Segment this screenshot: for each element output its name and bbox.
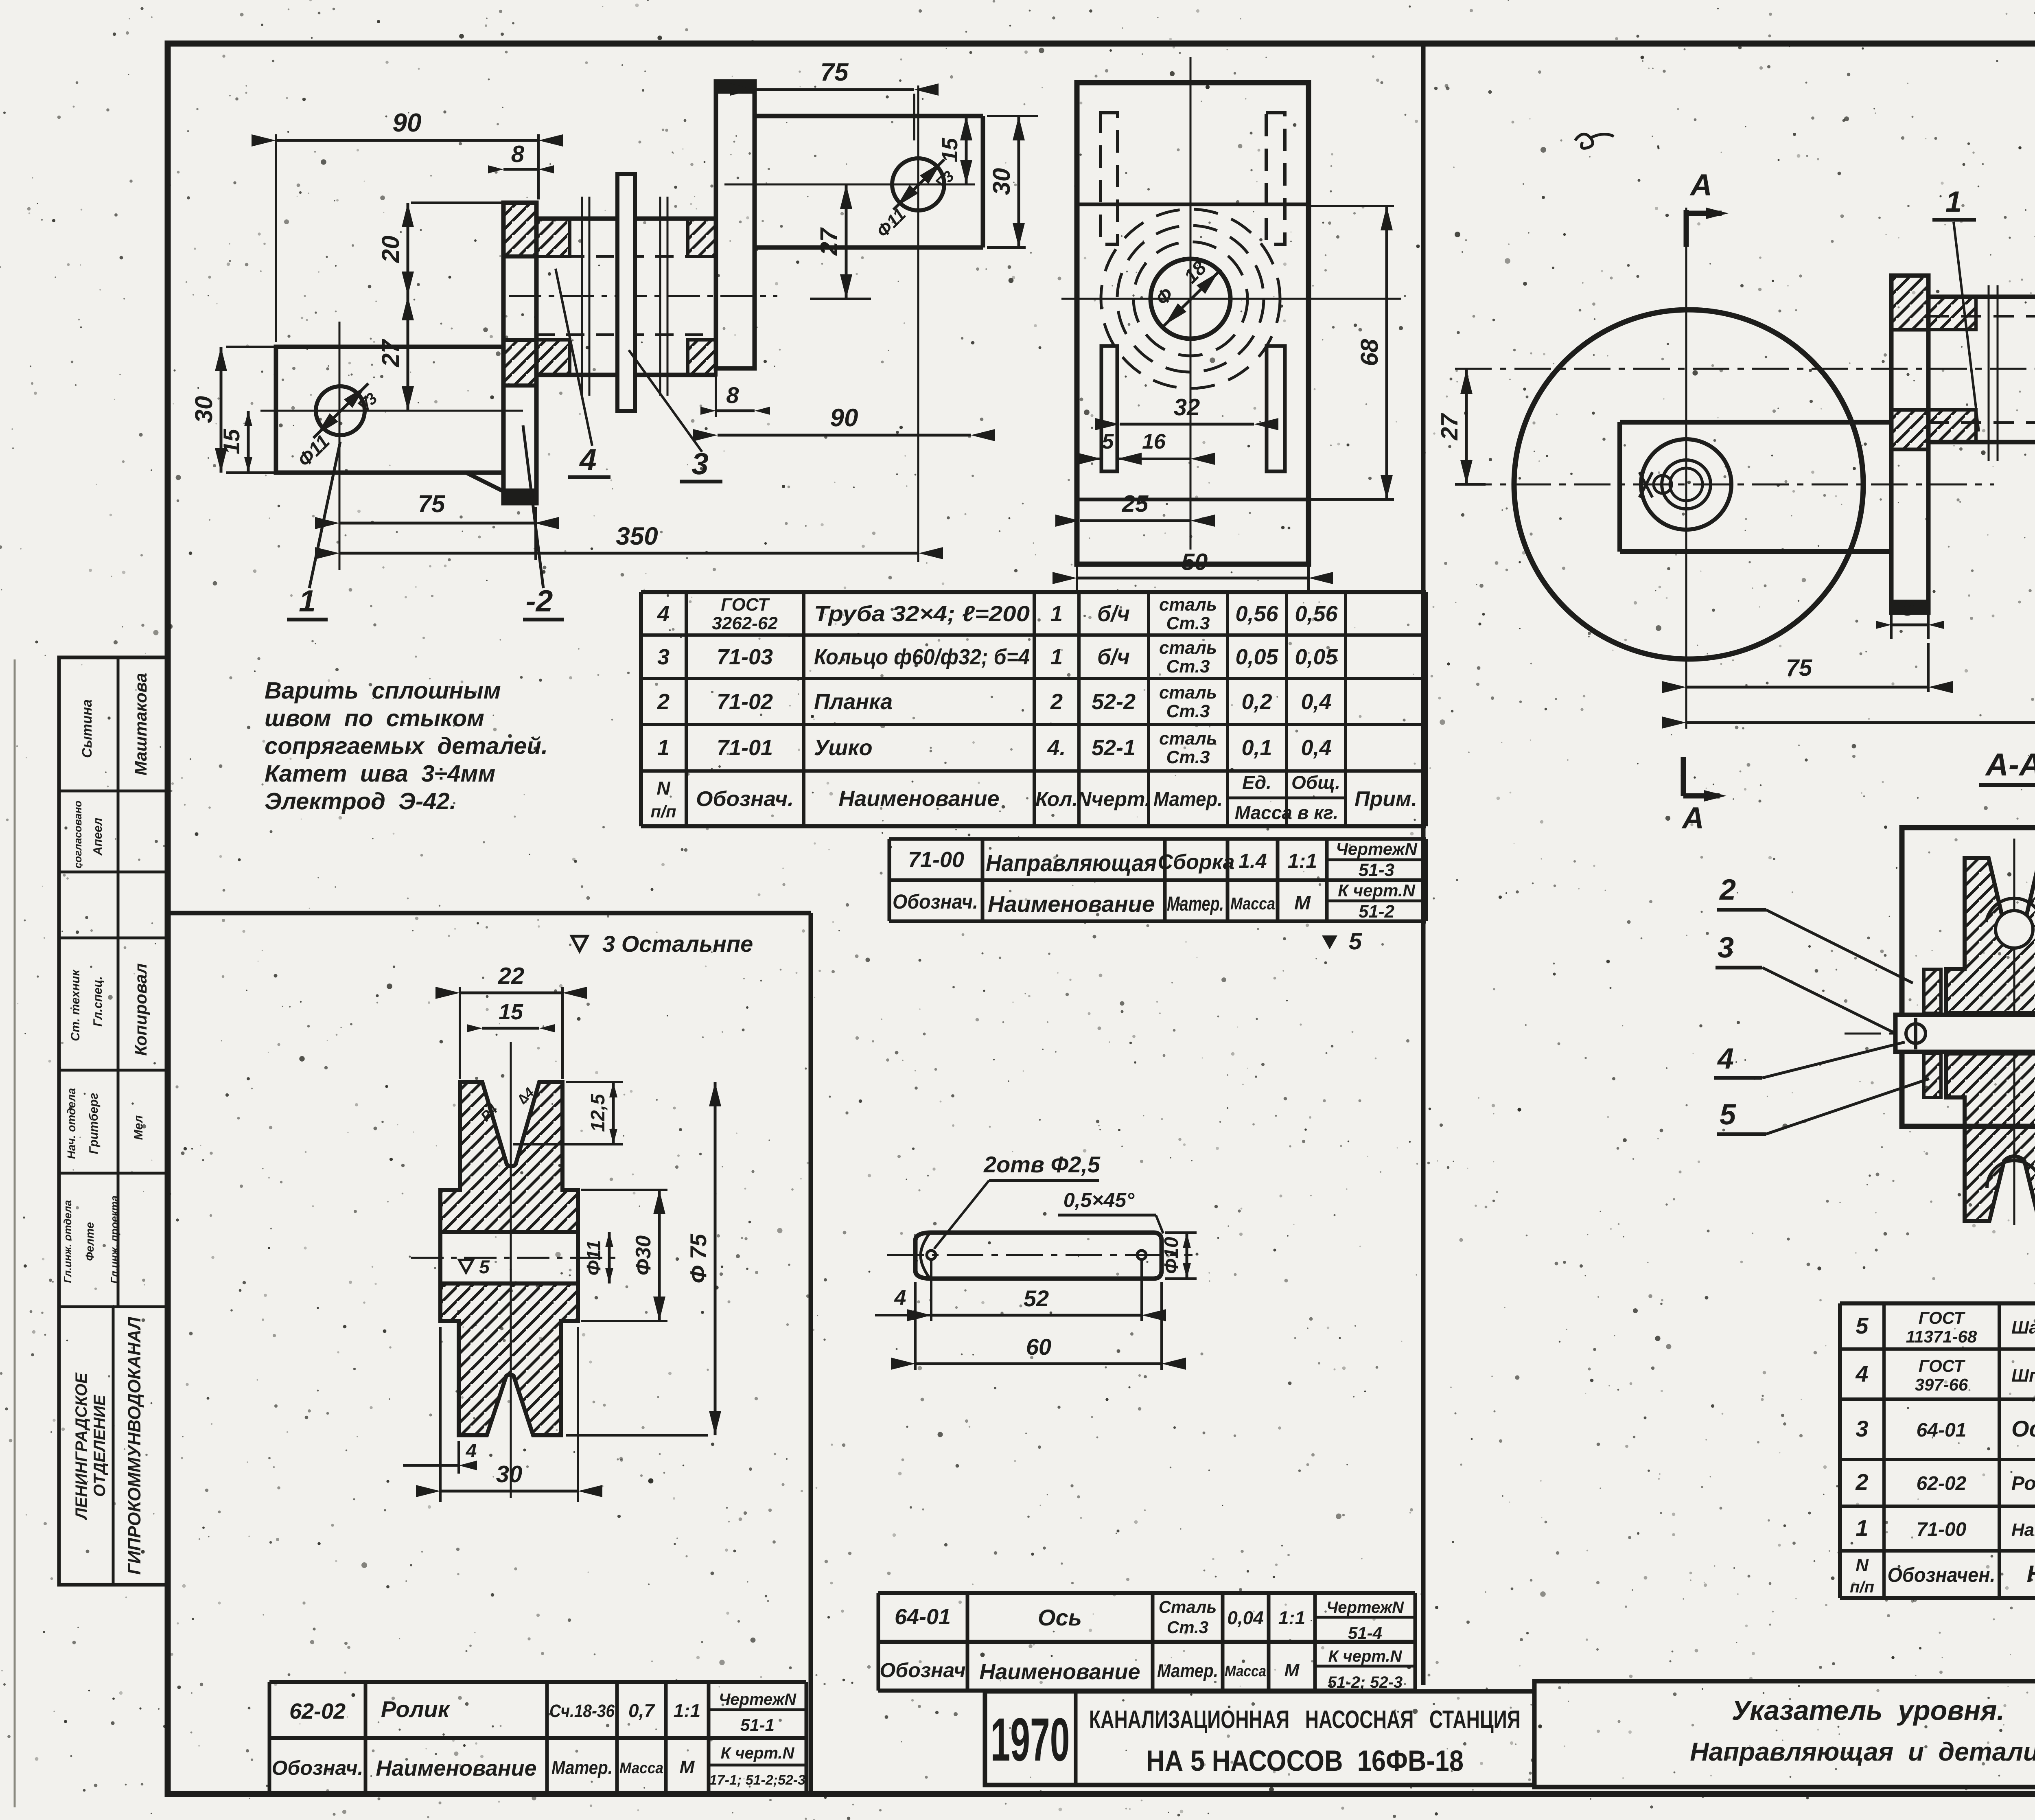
svg-text:2отв Ф2,5: 2отв Ф2,5	[983, 1152, 1101, 1177]
svg-text:Ось: Ось	[1038, 1605, 1082, 1630]
svg-text:3 Остальнпе: 3 Остальнпе	[602, 931, 753, 957]
svg-text:30: 30	[496, 1461, 523, 1487]
svg-text:1: 1	[299, 584, 316, 618]
svg-text:К черт.N: К черт.N	[1338, 881, 1416, 900]
svg-text:Сборка: Сборка	[1158, 850, 1234, 874]
center circles	[1151, 259, 1230, 339]
svg-text:71-00: 71-00	[908, 848, 964, 872]
dim 30 right	[1017, 116, 1020, 247]
svg-text:Мел: Мел	[132, 1115, 145, 1140]
svg-text:-2: -2	[526, 584, 553, 618]
svg-text:ГОСТ: ГОСТ	[1919, 1308, 1966, 1327]
lug bar (ушко) left	[276, 347, 503, 473]
weld beads at flange2	[688, 219, 716, 256]
svg-text:64-01: 64-01	[1917, 1419, 1967, 1441]
svg-text:Нач. отдела: Нач. отдела	[65, 1088, 78, 1159]
svg-text:К черт.N: К черт.N	[721, 1744, 795, 1762]
svg-text:Направляющая и детали.: Направляющая и детали.	[1690, 1737, 2035, 1766]
dim 5 16	[1074, 458, 1101, 460]
svg-text:сталь: сталь	[1159, 729, 1217, 749]
svg-text:Гл.спец.: Гл.спец.	[91, 976, 105, 1027]
callout 1	[309, 442, 340, 588]
svg-text:Ст. техник: Ст. техник	[69, 969, 82, 1041]
svg-text:К черт.N: К черт.N	[1328, 1647, 1403, 1665]
svg-text:51-4: 51-4	[1348, 1623, 1382, 1643]
svg-text:Ст.3: Ст.3	[1166, 613, 1210, 633]
svg-text:75: 75	[1786, 655, 1812, 681]
body rect	[1077, 83, 1309, 564]
dim 27 right	[845, 184, 848, 299]
svg-text:1: 1	[1050, 602, 1063, 626]
lug hole	[316, 386, 365, 435]
upper washers	[1924, 969, 1941, 1013]
svg-text:2: 2	[1719, 874, 1736, 906]
paper fold line far left	[14, 659, 16, 1807]
svg-text:Наименование: Наименование	[2027, 1561, 2035, 1587]
svg-text:4: 4	[1855, 1361, 1868, 1386]
svg-text:б/ч: б/ч	[1097, 645, 1130, 669]
svg-text:3262-62: 3262-62	[712, 613, 778, 633]
pulley upper half hatched	[1946, 858, 2035, 1013]
svg-text:30: 30	[190, 396, 217, 423]
svg-text:Маштакова: Маштакова	[131, 673, 150, 775]
callout 3	[629, 350, 702, 452]
spec table 64-xx	[1840, 1301, 2035, 1305]
section mark A top	[1684, 210, 1689, 247]
dim 75 bottom	[1686, 686, 1928, 689]
pipe axis centerline	[1455, 368, 2035, 370]
dim 75 bottom left	[534, 507, 537, 560]
svg-text:5: 5	[1102, 430, 1114, 453]
svg-text:М: М	[1284, 1660, 1300, 1680]
svg-text:5: 5	[1720, 1098, 1736, 1131]
svg-text:27: 27	[377, 339, 404, 367]
flange plate 1 (планка)	[503, 203, 536, 503]
svg-text:17-1; 51-2;52-3: 17-1; 51-2;52-3	[709, 1772, 805, 1788]
roller top flange hatched	[440, 1082, 578, 1232]
svg-text:А: А	[1689, 168, 1712, 202]
svg-text:1: 1	[1945, 186, 1962, 218]
svg-text:Труба 32×4; ℓ=200: Труба 32×4; ℓ=200	[814, 602, 1030, 626]
svg-text:0,5×45°: 0,5×45°	[1063, 1189, 1135, 1211]
dim 30 left	[226, 346, 280, 348]
svg-text:А-А: А-А	[1985, 747, 2035, 782]
svg-text:ГИПРОКОММУНВОДОКАНАЛ: ГИПРОКОММУНВОДОКАНАЛ	[125, 1317, 144, 1575]
svg-text:8: 8	[511, 141, 525, 167]
svg-text:30: 30	[988, 168, 1015, 195]
svg-text:Кольцо ф60/ф32; б=4: Кольцо ф60/ф32; б=4	[814, 645, 1030, 669]
svg-text:90: 90	[830, 404, 858, 432]
svg-text:Обознач.: Обознач.	[271, 1756, 363, 1779]
svg-text:52-2: 52-2	[1092, 690, 1136, 714]
left lug plate	[1620, 420, 1891, 425]
svg-text:М: М	[1294, 892, 1311, 914]
svg-text:Наименование: Наименование	[979, 1660, 1140, 1684]
svg-text:51-2; 52-3: 51-2; 52-3	[1328, 1673, 1403, 1691]
pipe break lines	[1988, 285, 1990, 461]
svg-text:3: 3	[1718, 931, 1734, 964]
surface note	[572, 936, 587, 951]
svg-text:27: 27	[815, 227, 842, 256]
svg-text:ЧертежN: ЧертежN	[1326, 1599, 1404, 1616]
svg-text:Наименование: Наименование	[988, 891, 1155, 917]
svg-text:п/п: п/п	[651, 802, 676, 821]
spec table 71-xx	[641, 590, 1426, 594]
svg-text:52: 52	[1024, 1286, 1049, 1311]
svg-text:51-3: 51-3	[1359, 860, 1394, 880]
1970 title block	[985, 1691, 1534, 1785]
svg-text:Прим.: Прим.	[1354, 787, 1417, 811]
dim 60	[914, 1282, 917, 1370]
svg-text:22: 22	[498, 963, 525, 989]
dim Ф11	[608, 1232, 611, 1283]
svg-text:Сталь: Сталь	[1159, 1597, 1217, 1616]
svg-text:N: N	[656, 777, 670, 799]
left pulley centerline	[1455, 484, 1994, 486]
svg-text:Обозначен.: Обозначен.	[1888, 1564, 1996, 1586]
svg-text:Обознач: Обознач	[880, 1659, 965, 1682]
stamp row line	[59, 1172, 168, 1175]
svg-text:Ст.3: Ст.3	[1166, 701, 1210, 721]
upper hole label	[893, 160, 944, 210]
title table 62-02	[269, 1680, 806, 1684]
dim 15	[482, 1027, 539, 1030]
svg-text:62-02: 62-02	[1917, 1473, 1967, 1494]
svg-text:1:1: 1:1	[674, 1700, 700, 1721]
svg-text:ЧертежN: ЧертежN	[719, 1691, 796, 1708]
dim 75 top right	[755, 88, 914, 91]
stamp row line	[59, 871, 168, 874]
svg-text:сопрягаемых деталей.: сопрягаемых деталей.	[265, 733, 548, 759]
svg-text:согласовано: согласовано	[72, 801, 84, 869]
svg-text:25: 25	[1122, 491, 1149, 517]
section mark A bottom	[1681, 757, 1686, 796]
dim 90 right	[718, 434, 971, 437]
svg-text:60: 60	[1026, 1334, 1051, 1360]
dim Ф10	[1165, 1231, 1197, 1234]
svg-text:Сч.18-36: Сч.18-36	[549, 1701, 615, 1721]
dim 30 bottom	[439, 1327, 442, 1502]
svg-text:4: 4	[466, 1440, 477, 1462]
svg-text:Масса в кг.: Масса в кг.	[1235, 802, 1339, 823]
svg-text:4: 4	[579, 442, 597, 477]
svg-text:сталь: сталь	[1159, 683, 1217, 703]
svg-text:швом по стыком: швом по стыком	[265, 705, 484, 732]
svg-text:Направляющая: Направляющая	[986, 850, 1157, 876]
stamp row line	[59, 937, 168, 940]
lower groove arc	[1987, 1161, 2035, 1188]
svg-text:32: 32	[1174, 394, 1200, 421]
roller axis	[510, 1042, 512, 1498]
svg-text:4: 4	[657, 602, 670, 626]
flange 1	[1891, 276, 1928, 613]
svg-text:КАНАЛИЗАЦИОННАЯ НАСОСНАЯ С: КАНАЛИЗАЦИОННАЯ НАСОСНАЯ СТАНЦИЯ	[1089, 1706, 1521, 1734]
svg-text:0,7: 0,7	[628, 1700, 655, 1721]
svg-text:0,4: 0,4	[1301, 690, 1331, 714]
callout 4	[556, 269, 592, 446]
svg-text:Ушко: Ушко	[814, 736, 873, 760]
bracket plate	[1902, 828, 2035, 1126]
svg-text:Обознач.: Обознач.	[893, 890, 978, 913]
dim 52	[930, 1260, 932, 1321]
upper lug bar right	[755, 114, 983, 118]
svg-text:Катет шва 3÷4мм: Катет шва 3÷4мм	[265, 760, 495, 787]
svg-text:16: 16	[1142, 430, 1166, 453]
Ф18 label	[1162, 269, 1221, 328]
svg-text:Наименование: Наименование	[376, 1756, 536, 1781]
svg-text:ГОСТ: ГОСТ	[721, 595, 770, 615]
svg-text:52-1: 52-1	[1092, 736, 1136, 760]
pipe (труба) outline	[536, 217, 716, 221]
lug plates bottom	[1101, 346, 1117, 471]
svg-text:5: 5	[1349, 928, 1362, 955]
dim 350 assembly	[1686, 721, 2035, 724]
pipe centerline	[509, 295, 777, 297]
svg-text:5: 5	[1856, 1313, 1869, 1338]
svg-text:Ст.3: Ст.3	[1167, 1618, 1208, 1637]
svg-text:Шайба 10: Шайба 10	[2011, 1318, 2035, 1338]
svg-text:п/п: п/п	[1850, 1578, 1874, 1596]
stamp row line	[59, 1305, 168, 1308]
dim 50	[1076, 541, 1078, 594]
svg-text:Гл.инж. отдела: Гл.инж. отдела	[61, 1200, 74, 1283]
stamp row line	[59, 1069, 168, 1072]
finish mark 5	[459, 1260, 473, 1272]
lug hole centerlines	[260, 410, 523, 412]
inner lines	[1077, 203, 1309, 206]
svg-text:0,2: 0,2	[1241, 690, 1272, 714]
svg-text:Ф11: Ф11	[583, 1240, 605, 1275]
dim Ф30	[581, 1189, 667, 1191]
axle	[1895, 1015, 2035, 1052]
bore lines	[440, 1230, 578, 1234]
dim 32	[1120, 423, 1254, 426]
svg-text:15: 15	[219, 429, 244, 454]
svg-text:Обознач.: Обознач.	[696, 787, 794, 811]
svg-text:3: 3	[691, 447, 709, 481]
svg-text:А: А	[1681, 801, 1704, 835]
svg-text:71-02: 71-02	[717, 690, 773, 714]
svg-text:51-1: 51-1	[740, 1715, 775, 1735]
flange plate 2	[716, 81, 755, 368]
dim 20	[411, 201, 507, 204]
svg-text:50: 50	[1182, 549, 1208, 575]
svg-text:Масса: Масса	[619, 1760, 663, 1777]
svg-text:3: 3	[1856, 1416, 1868, 1441]
svg-text:1:1: 1:1	[1278, 1607, 1305, 1628]
svg-text:8: 8	[1902, 596, 1914, 620]
svg-text:0,4: 0,4	[1301, 736, 1331, 760]
title table 71-00	[889, 837, 1426, 841]
svg-text:Nчерт.: Nчерт.	[1077, 788, 1150, 810]
svg-text:68: 68	[1356, 339, 1383, 366]
svg-text:Масса: Масса	[1230, 894, 1275, 913]
svg-text:ГОСТ: ГОСТ	[1919, 1356, 1966, 1375]
svg-text:Шплинт 2,5×16: Шплинт 2,5×16	[2011, 1366, 2035, 1386]
svg-text:Ролик: Ролик	[381, 1696, 451, 1722]
svg-text:64-01: 64-01	[895, 1605, 951, 1629]
svg-text:4.: 4.	[1047, 736, 1066, 760]
svg-text:Фелте: Фелте	[83, 1222, 96, 1261]
svg-text:Гритберг: Гритберг	[87, 1093, 101, 1154]
dim 90 top	[275, 134, 277, 342]
name block	[1534, 1681, 2035, 1787]
svg-text:НА 5 НАСОСОВ 16ФВ-18: НА 5 НАСОСОВ 16ФВ-18	[1146, 1745, 1464, 1777]
svg-text:1: 1	[657, 736, 670, 760]
svg-text:сталь: сталь	[1159, 595, 1217, 615]
svg-text:71-01: 71-01	[717, 736, 773, 760]
svg-text:Указатель уровня.: Указатель уровня.	[1732, 1695, 2005, 1726]
svg-text:0,04: 0,04	[1227, 1607, 1264, 1628]
groove ball arc	[1996, 911, 2033, 948]
svg-text:ЛЕНИНГРАДСКОЕ: ЛЕНИНГРАДСКОЕ	[72, 1372, 90, 1520]
axis centerline	[887, 1254, 1193, 1256]
title table 64-01	[878, 1591, 1415, 1595]
svg-text:397-66: 397-66	[1915, 1375, 1968, 1394]
svg-text:Ед.: Ед.	[1242, 772, 1271, 793]
svg-text:1.4: 1.4	[1239, 850, 1267, 872]
svg-text:М: М	[680, 1757, 695, 1777]
svg-text:Общ.: Общ.	[1291, 772, 1340, 793]
zone divider vertical center	[1421, 44, 1426, 1685]
pipe	[1928, 295, 2035, 299]
stamp column outer	[59, 657, 168, 1585]
svg-text:Электрод Э-42.: Электрод Э-42.	[265, 788, 456, 815]
zone divider vertical left	[809, 913, 813, 1794]
left pulley vertical centerline	[1685, 208, 1687, 729]
svg-text:Наименование: Наименование	[838, 786, 999, 811]
pipe break lines	[581, 197, 583, 396]
svg-text:Сытина: Сытина	[79, 699, 95, 758]
left pulley circle	[1514, 310, 1863, 659]
svg-text:Матер.: Матер.	[1167, 892, 1224, 915]
svg-text:0,56: 0,56	[1235, 602, 1278, 626]
stamp column inner split	[117, 657, 120, 1307]
svg-text:12,5: 12,5	[587, 1093, 609, 1132]
svg-text:75: 75	[418, 490, 446, 517]
svg-text:1:1: 1:1	[1288, 850, 1317, 872]
svg-text:90: 90	[392, 108, 421, 137]
pin body	[915, 1233, 1162, 1279]
pipe hidden lines	[536, 255, 716, 258]
welds	[1928, 297, 1976, 330]
svg-text:ОТДЕЛЕНИЕ: ОТДЕЛЕНИЕ	[91, 1395, 109, 1497]
svg-text:4: 4	[894, 1286, 906, 1310]
svg-text:0,56: 0,56	[1295, 602, 1338, 626]
svg-text:Масса: Масса	[1225, 1663, 1266, 1680]
dim 8 left flange	[1890, 615, 1893, 639]
squiggle mark	[1575, 134, 1614, 148]
svg-text:Варить сплошным: Варить сплошным	[265, 677, 501, 704]
svg-text:Ф30: Ф30	[632, 1235, 655, 1276]
svg-text:Направляющая: Направляющая	[2011, 1520, 2035, 1540]
svg-text:Ось: Ось	[2011, 1416, 2035, 1441]
finish mark 5	[1322, 935, 1337, 949]
svg-text:8: 8	[726, 382, 739, 408]
svg-text:5: 5	[479, 1256, 490, 1277]
svg-text:2: 2	[1050, 690, 1063, 714]
svg-text:350: 350	[616, 522, 658, 550]
lower washers	[1924, 1053, 1941, 1097]
svg-text:1970: 1970	[991, 1705, 1070, 1774]
callout 1 assembly	[1954, 222, 1979, 431]
svg-text:0,05: 0,05	[1295, 645, 1338, 669]
cotter pins	[1906, 1024, 1926, 1043]
svg-text:4: 4	[1717, 1043, 1734, 1075]
svg-text:27: 27	[1436, 413, 1463, 440]
dim 8 flange2	[715, 375, 717, 417]
svg-text:20: 20	[377, 236, 404, 263]
dim Ф75	[566, 1434, 708, 1437]
dim 15 left	[247, 411, 250, 473]
dim 8 flange1	[503, 168, 538, 171]
hidden tube rects top	[1101, 113, 1118, 244]
roller bottom flange hatched	[440, 1283, 578, 1435]
lug chamfer	[466, 473, 503, 491]
svg-text:62-02: 62-02	[289, 1699, 346, 1724]
svg-text:15: 15	[499, 1000, 523, 1024]
holes	[927, 1251, 936, 1259]
svg-text:Матер.: Матер.	[551, 1757, 613, 1778]
svg-text:0,1: 0,1	[1241, 736, 1272, 760]
dim 12,5	[566, 1081, 623, 1083]
callout 2	[523, 425, 543, 588]
svg-text:Ст.3: Ст.3	[1166, 747, 1210, 767]
zone divider horizontal left	[168, 911, 811, 915]
upper lug hole	[892, 158, 944, 210]
svg-text:ЧертежN: ЧертежN	[1336, 839, 1418, 859]
svg-text:11371-68: 11371-68	[1906, 1327, 1977, 1346]
svg-text:Кол.: Кол.	[1035, 788, 1078, 810]
svg-text:Ст.3: Ст.3	[1166, 657, 1210, 677]
svg-text:Ф10: Ф10	[1161, 1237, 1182, 1274]
horizontal centerline	[1845, 1033, 2035, 1035]
svg-text:51-2: 51-2	[1359, 902, 1395, 922]
svg-text:1: 1	[1050, 645, 1063, 669]
dim 27 left assembly	[1465, 370, 1468, 484]
svg-text:71-03: 71-03	[717, 645, 773, 669]
hole label Ф11 leader	[313, 383, 368, 438]
svg-text:15: 15	[938, 138, 962, 162]
svg-text:0,05: 0,05	[1235, 645, 1278, 669]
left axle hub circles	[1641, 439, 1731, 530]
weld beads at flange1	[536, 219, 570, 256]
dim 25	[1080, 519, 1190, 522]
svg-text:Планка: Планка	[814, 690, 893, 714]
svg-text:Матер.: Матер.	[1153, 788, 1223, 810]
svg-text:Гл.инж. проекта: Гл.инж. проекта	[108, 1196, 120, 1283]
svg-text:б/ч: б/ч	[1097, 602, 1130, 626]
pulley lower half hatched	[1946, 1053, 2035, 1221]
svg-text:71-00: 71-00	[1917, 1519, 1967, 1540]
svg-text:2: 2	[657, 690, 670, 714]
svg-text:сталь: сталь	[1159, 638, 1217, 658]
svg-text:2: 2	[1855, 1469, 1868, 1495]
dim 27 left	[407, 296, 409, 411]
dim 22	[459, 987, 461, 1079]
svg-text:Копировал: Копировал	[131, 963, 150, 1056]
svg-text:3: 3	[657, 645, 670, 669]
svg-text:Ролик: Ролик	[2011, 1473, 2035, 1494]
ring (кольцо)	[617, 174, 635, 411]
svg-text:1: 1	[1856, 1515, 1868, 1541]
stamp bottom cell split	[112, 1307, 115, 1585]
stamp row line	[59, 790, 168, 793]
dim 68	[1311, 205, 1394, 207]
dim 15 right	[965, 116, 968, 184]
svg-text:N: N	[1856, 1555, 1869, 1575]
svg-text:75: 75	[821, 58, 849, 86]
